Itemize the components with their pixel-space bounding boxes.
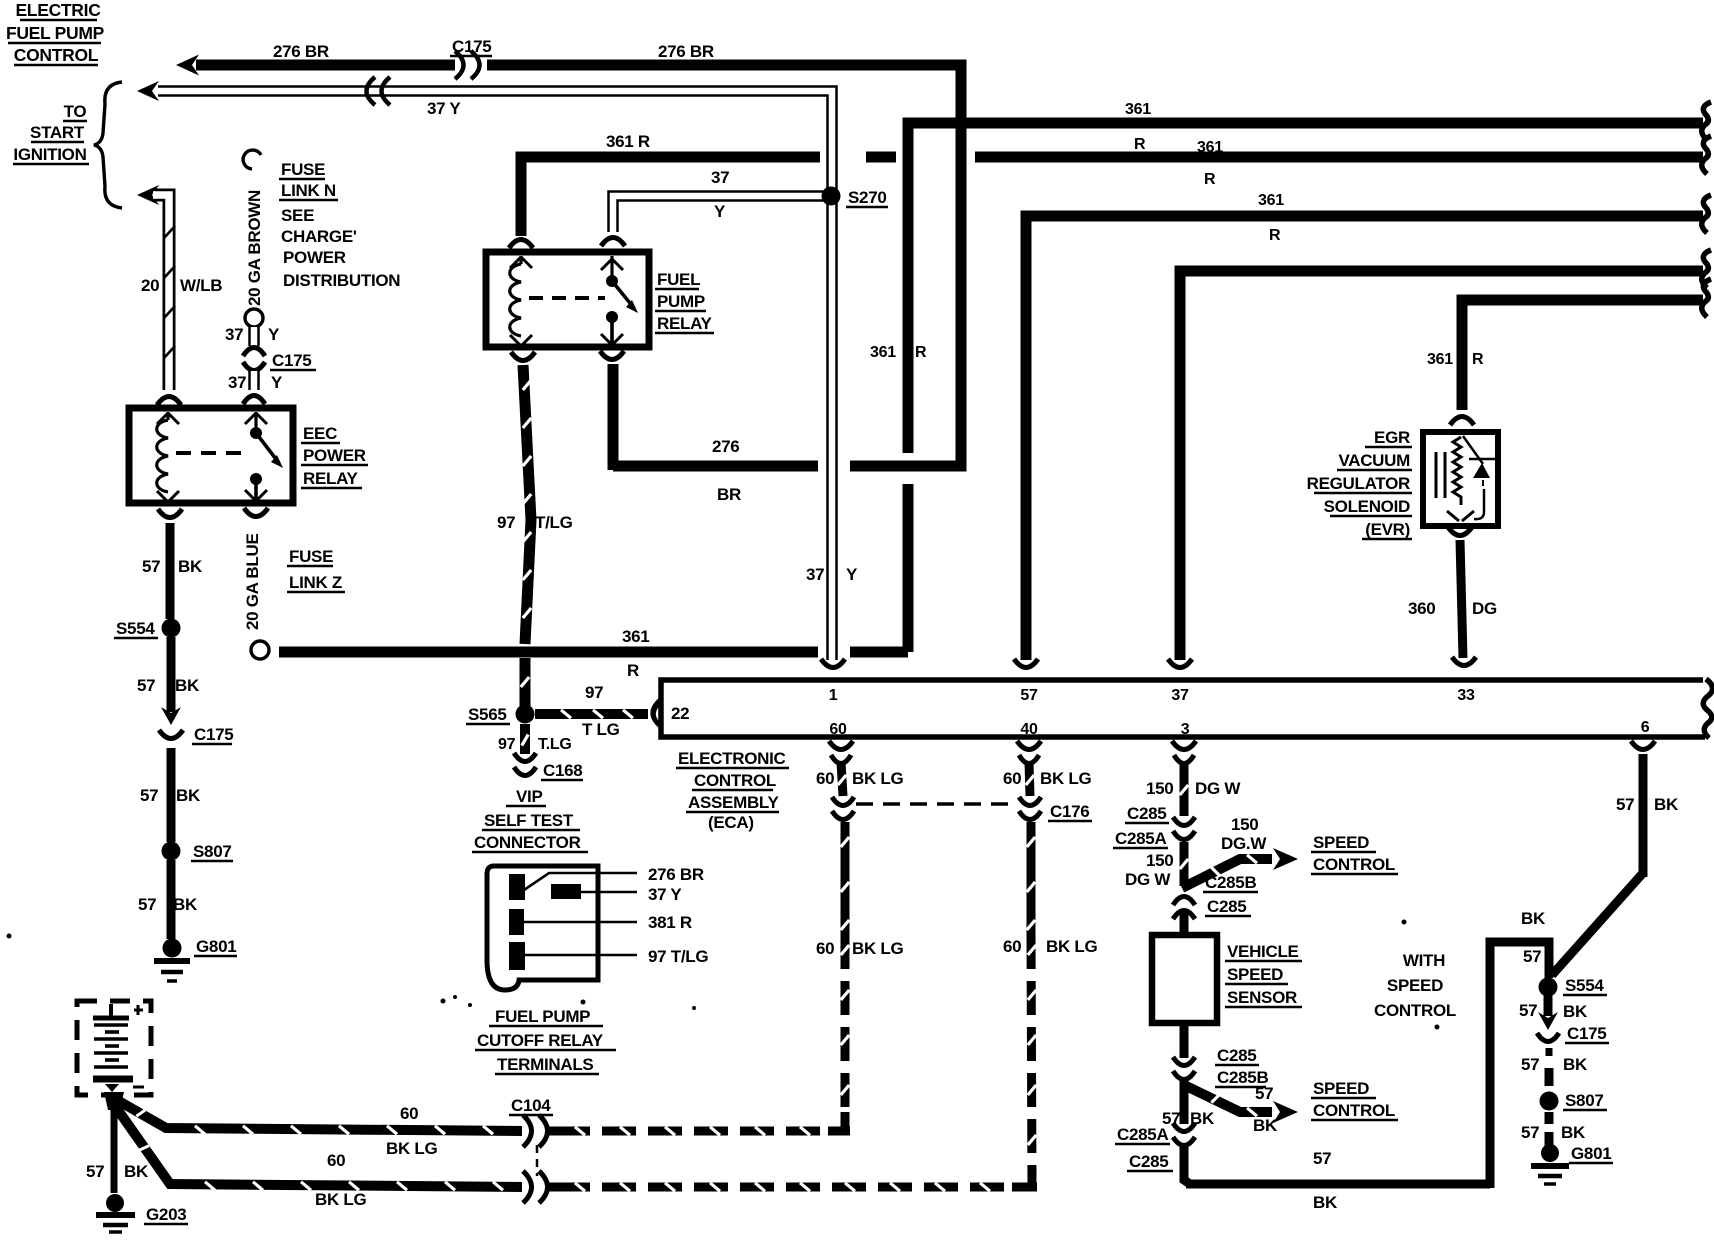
svg-text:276 BR: 276 BR	[648, 865, 704, 884]
svg-text:G203: G203	[146, 1205, 186, 1224]
svg-text:57: 57	[1523, 947, 1541, 966]
svg-text:TO: TO	[64, 102, 87, 121]
svg-text:150: 150	[1146, 779, 1173, 798]
svg-text:SOLENOID: SOLENOID	[1324, 497, 1410, 516]
svg-text:361: 361	[622, 627, 649, 646]
svg-text:40: 40	[1020, 721, 1038, 738]
svg-text:BK LG: BK LG	[386, 1139, 437, 1158]
svg-text:BK: BK	[1313, 1193, 1338, 1212]
svg-text:R: R	[1204, 171, 1216, 188]
svg-text:PUMP: PUMP	[657, 292, 705, 311]
svg-text:CONTROL: CONTROL	[1374, 1001, 1456, 1020]
svg-text:57: 57	[1521, 1123, 1539, 1142]
svg-text:VACUUM: VACUUM	[1338, 451, 1410, 470]
svg-text:60: 60	[829, 721, 847, 738]
svg-text:60: 60	[816, 769, 834, 788]
svg-text:DG.W: DG.W	[1221, 834, 1267, 853]
svg-text:57: 57	[142, 557, 160, 576]
svg-text:S807: S807	[1565, 1091, 1604, 1110]
svg-text:(EVR): (EVR)	[1365, 520, 1410, 539]
svg-text:361: 361	[1258, 192, 1284, 209]
svg-text:G801: G801	[1571, 1144, 1611, 1163]
svg-text:20 GA BROWN: 20 GA BROWN	[245, 190, 264, 306]
svg-text:37 Y: 37 Y	[427, 99, 461, 118]
svg-text:C285: C285	[1217, 1046, 1256, 1065]
svg-text:57: 57	[1313, 1149, 1331, 1168]
svg-text:57: 57	[1521, 1055, 1539, 1074]
svg-text:361: 361	[1427, 351, 1453, 368]
svg-text:W/LB: W/LB	[180, 276, 222, 295]
svg-text:361: 361	[1125, 101, 1151, 118]
svg-text:EGR: EGR	[1374, 428, 1410, 447]
svg-text:LINK Z: LINK Z	[289, 573, 342, 592]
svg-text:VIP: VIP	[516, 787, 543, 806]
svg-text:CONTROL: CONTROL	[14, 45, 99, 65]
svg-text:R: R	[1134, 136, 1146, 153]
svg-text:57: 57	[140, 786, 158, 805]
svg-text:S270: S270	[848, 188, 887, 207]
svg-text:Y: Y	[846, 565, 858, 584]
svg-text:57: 57	[137, 676, 155, 695]
svg-text:CONTROL: CONTROL	[1313, 1101, 1395, 1120]
svg-text:276 BR: 276 BR	[658, 42, 714, 61]
svg-text:BK LG: BK LG	[315, 1190, 366, 1209]
svg-text:57: 57	[1255, 1084, 1273, 1103]
svg-text:EEC: EEC	[303, 424, 337, 443]
svg-text:POWER: POWER	[303, 446, 366, 465]
svg-text:Y: Y	[271, 373, 283, 392]
svg-text:T LG: T LG	[582, 720, 620, 739]
svg-text:BK: BK	[1654, 795, 1679, 814]
svg-text:IGNITION: IGNITION	[13, 145, 86, 164]
svg-text:BK: BK	[176, 786, 201, 805]
svg-text:S554: S554	[1565, 976, 1604, 995]
svg-text:20 GA BLUE: 20 GA BLUE	[243, 533, 262, 630]
svg-text:FUEL: FUEL	[657, 270, 700, 289]
svg-text:C176: C176	[1050, 802, 1089, 821]
svg-text:361: 361	[1197, 139, 1223, 156]
svg-text:381 R: 381 R	[648, 913, 692, 932]
svg-text:20: 20	[141, 276, 159, 295]
svg-text:BR: BR	[717, 485, 741, 504]
svg-text:POWER: POWER	[283, 248, 346, 267]
svg-text:Y: Y	[714, 202, 726, 221]
svg-text:R: R	[1472, 351, 1484, 368]
svg-text:C285: C285	[1207, 897, 1246, 916]
svg-text:BK LG: BK LG	[1046, 937, 1097, 956]
svg-text:C175: C175	[194, 725, 233, 744]
svg-text:ELECTRIC: ELECTRIC	[15, 0, 101, 20]
svg-text:60: 60	[400, 1104, 418, 1123]
svg-text:SPEED: SPEED	[1387, 976, 1443, 995]
svg-text:361: 361	[870, 344, 896, 361]
svg-text:S565: S565	[468, 705, 507, 724]
svg-text:SPEED: SPEED	[1313, 833, 1369, 852]
svg-text:97: 97	[498, 736, 516, 753]
svg-text:REGULATOR: REGULATOR	[1307, 474, 1410, 493]
svg-text:C175: C175	[1567, 1024, 1606, 1043]
svg-text:57: 57	[1616, 795, 1634, 814]
svg-text:S807: S807	[193, 842, 232, 861]
svg-text:C285A: C285A	[1117, 1125, 1168, 1144]
svg-text:CONNECTOR: CONNECTOR	[474, 833, 581, 852]
svg-text:37: 37	[225, 325, 243, 344]
svg-text:C285B: C285B	[1205, 873, 1256, 892]
svg-text:BK: BK	[1561, 1123, 1586, 1142]
svg-text:SELF TEST: SELF TEST	[484, 811, 574, 830]
svg-text:97: 97	[497, 513, 515, 532]
svg-text:1: 1	[829, 687, 838, 704]
svg-text:FUEL PUMP: FUEL PUMP	[6, 23, 105, 43]
svg-text:ELECTRONIC: ELECTRONIC	[678, 749, 786, 768]
svg-text:150: 150	[1231, 815, 1258, 834]
svg-text:R: R	[1269, 227, 1281, 244]
svg-text:BK: BK	[175, 676, 200, 695]
svg-text:22: 22	[671, 704, 689, 723]
svg-text:T.LG: T.LG	[538, 736, 571, 753]
svg-text:T/LG: T/LG	[535, 513, 573, 532]
svg-text:3: 3	[1181, 721, 1190, 738]
svg-text:37: 37	[228, 373, 246, 392]
svg-text:C175: C175	[272, 351, 311, 370]
svg-text:WITH: WITH	[1403, 951, 1445, 970]
svg-text:C285: C285	[1127, 804, 1166, 823]
svg-text:57: 57	[1519, 1001, 1537, 1020]
svg-text:G801: G801	[196, 937, 236, 956]
svg-text:CHARGE': CHARGE'	[281, 227, 357, 246]
svg-text:FUSE: FUSE	[281, 160, 325, 179]
svg-text:360: 360	[1408, 599, 1435, 618]
svg-text:(ECA): (ECA)	[708, 813, 754, 832]
svg-text:RELAY: RELAY	[303, 469, 359, 488]
svg-text:60: 60	[816, 939, 834, 958]
svg-text:6: 6	[1641, 719, 1650, 736]
svg-text:START: START	[30, 123, 85, 142]
svg-text:37: 37	[711, 168, 729, 187]
svg-text:BK: BK	[124, 1162, 149, 1181]
svg-text:60: 60	[1003, 937, 1021, 956]
svg-text:60: 60	[327, 1151, 345, 1170]
svg-text:FUSE: FUSE	[289, 547, 333, 566]
svg-text:276: 276	[712, 437, 739, 456]
svg-text:BK LG: BK LG	[852, 769, 903, 788]
svg-text:BK: BK	[1563, 1055, 1588, 1074]
svg-text:361 R: 361 R	[606, 132, 650, 151]
svg-text:Y: Y	[268, 325, 280, 344]
svg-text:BK LG: BK LG	[1040, 769, 1091, 788]
svg-text:SENSOR: SENSOR	[1227, 988, 1297, 1007]
svg-text:57: 57	[1020, 687, 1038, 704]
svg-text:BK: BK	[173, 895, 198, 914]
svg-text:TERMINALS: TERMINALS	[497, 1055, 593, 1074]
svg-text:R: R	[915, 344, 927, 361]
svg-text:C285: C285	[1129, 1152, 1168, 1171]
svg-text:ASSEMBLY: ASSEMBLY	[688, 793, 779, 812]
svg-text:57: 57	[138, 895, 156, 914]
svg-text:S554: S554	[116, 619, 155, 638]
svg-text:CONTROL: CONTROL	[1313, 855, 1395, 874]
svg-text:R: R	[627, 661, 639, 680]
svg-text:C175: C175	[452, 37, 491, 56]
svg-text:BK: BK	[178, 557, 203, 576]
svg-text:37 Y: 37 Y	[648, 885, 682, 904]
svg-text:97: 97	[585, 683, 603, 702]
svg-text:CONTROL: CONTROL	[694, 771, 776, 790]
svg-text:LINK N: LINK N	[281, 181, 336, 200]
svg-text:37: 37	[1171, 687, 1189, 704]
svg-text:33: 33	[1457, 687, 1475, 704]
svg-text:SEE: SEE	[281, 206, 314, 225]
svg-text:SPEED: SPEED	[1227, 965, 1283, 984]
svg-text:276 BR: 276 BR	[273, 42, 329, 61]
svg-text:57: 57	[86, 1162, 104, 1181]
svg-text:150: 150	[1146, 851, 1173, 870]
svg-text:BK: BK	[1563, 1002, 1588, 1021]
svg-text:CUTOFF RELAY: CUTOFF RELAY	[477, 1031, 604, 1050]
svg-text:DG W: DG W	[1125, 870, 1171, 889]
svg-text:BK: BK	[1253, 1116, 1278, 1135]
svg-text:C285A: C285A	[1115, 829, 1166, 848]
svg-text:C104: C104	[511, 1096, 551, 1115]
svg-text:60: 60	[1003, 769, 1021, 788]
svg-text:C168: C168	[543, 761, 582, 780]
svg-text:BK LG: BK LG	[852, 939, 903, 958]
svg-text:SPEED: SPEED	[1313, 1079, 1369, 1098]
svg-text:BK: BK	[1521, 909, 1546, 928]
svg-text:DISTRIBUTION: DISTRIBUTION	[283, 271, 400, 290]
svg-text:97 T/LG: 97 T/LG	[648, 947, 708, 966]
svg-text:DG W: DG W	[1195, 779, 1241, 798]
svg-text:FUEL PUMP: FUEL PUMP	[495, 1007, 590, 1026]
svg-text:VEHICLE: VEHICLE	[1227, 942, 1299, 961]
svg-text:RELAY: RELAY	[657, 314, 713, 333]
svg-text:DG: DG	[1472, 599, 1497, 618]
svg-text:37: 37	[806, 565, 824, 584]
